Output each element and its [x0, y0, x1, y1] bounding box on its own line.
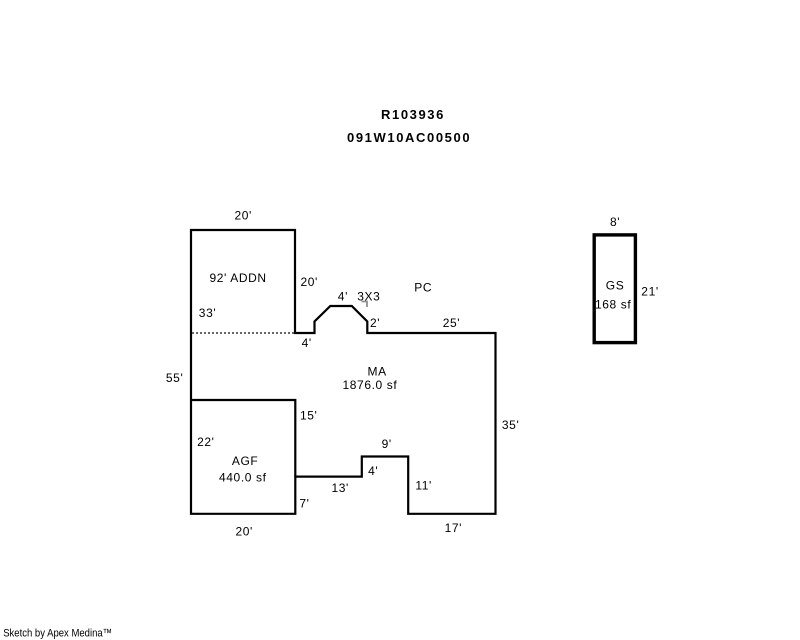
- svg-text:4': 4': [338, 290, 348, 304]
- svg-text:13': 13': [332, 481, 349, 495]
- svg-text:3X3: 3X3: [357, 290, 380, 304]
- svg-text:25': 25': [443, 316, 460, 330]
- svg-text:4': 4': [302, 336, 312, 350]
- svg-text:091W10AC00500: 091W10AC00500: [347, 130, 471, 145]
- svg-text:AGF: AGF: [232, 454, 258, 468]
- svg-text:20': 20': [236, 524, 253, 538]
- svg-text:92' ADDN: 92' ADDN: [210, 271, 267, 285]
- svg-text:MA: MA: [368, 364, 387, 378]
- svg-text:21': 21': [641, 285, 658, 299]
- svg-text:17': 17': [445, 521, 462, 535]
- main building outline MA perimeter wall: [191, 230, 496, 514]
- svg-text:2': 2': [370, 316, 380, 330]
- svg-text:R103936: R103936: [381, 107, 445, 122]
- svg-text:35': 35': [502, 418, 519, 432]
- svg-text:168 sf: 168 sf: [595, 297, 631, 311]
- svg-text:8': 8': [610, 215, 620, 229]
- gray corner mark under 3X3: [362, 302, 368, 308]
- svg-text:GS: GS: [606, 279, 625, 293]
- svg-text:33': 33': [199, 306, 216, 320]
- GS shed rectangle: [594, 235, 635, 343]
- svg-text:15': 15': [300, 409, 317, 423]
- svg-text:22': 22': [197, 435, 214, 449]
- svg-text:7': 7': [299, 497, 309, 511]
- svg-text:Sketch by Apex Medina™: Sketch by Apex Medina™: [3, 628, 112, 640]
- AGF garage interior partition walls: [191, 400, 295, 477]
- svg-text:PC: PC: [414, 281, 432, 295]
- svg-text:1876.0 sf: 1876.0 sf: [343, 378, 398, 392]
- svg-text:9': 9': [382, 437, 392, 451]
- svg-text:20': 20': [301, 275, 318, 289]
- ADDN dotted boundary line: [192, 332, 294, 334]
- svg-text:440.0 sf: 440.0 sf: [219, 470, 267, 484]
- svg-text:55': 55': [166, 371, 183, 385]
- svg-text:20': 20': [235, 209, 252, 223]
- svg-text:11': 11': [415, 478, 432, 492]
- svg-text:4': 4': [368, 464, 378, 478]
